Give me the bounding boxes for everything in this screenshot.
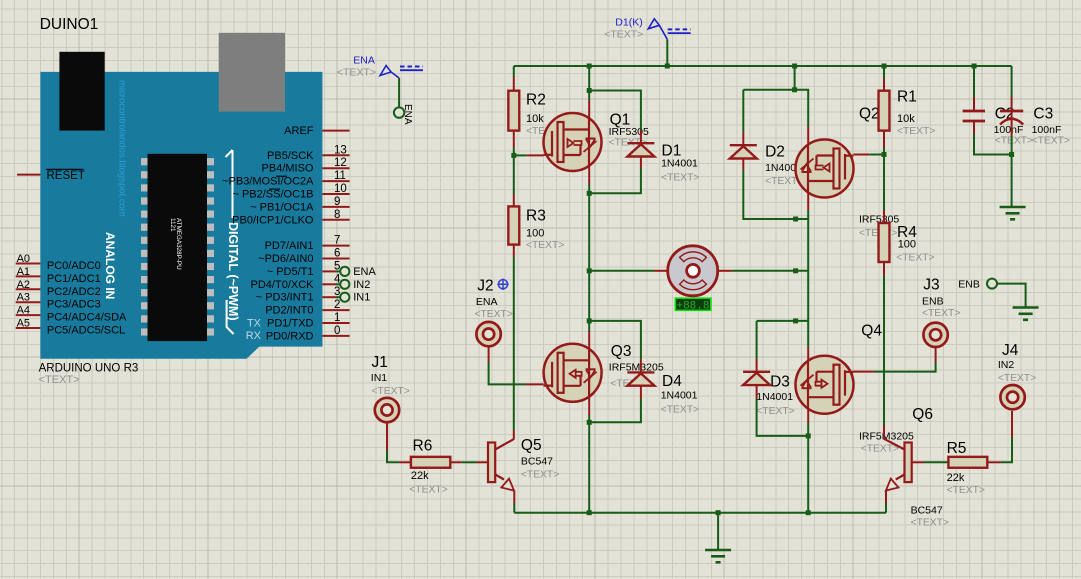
svg-text:Q2: Q2 [859,106,880,123]
svg-text:ENB: ENB [922,295,944,307]
svg-text:A1: A1 [17,266,30,278]
svg-text:<TEXT>: <TEXT> [896,253,934,264]
svg-text:IN1: IN1 [371,372,388,384]
svg-text:<TEXT>: <TEXT> [372,386,410,397]
svg-text:A2: A2 [17,279,30,291]
svg-text:ENA: ENA [476,296,498,308]
svg-text:C3: C3 [1033,106,1053,123]
svg-text:ENA: ENA [353,266,376,278]
svg-text:J2: J2 [477,278,493,295]
svg-text:3: 3 [334,286,340,298]
svg-text:6: 6 [334,248,340,260]
svg-text:~PB3/MOSI/OC2A: ~PB3/MOSI/OC2A [222,176,314,188]
svg-text:~ PD5/T1: ~ PD5/T1 [267,266,314,278]
svg-text:D3: D3 [770,374,790,391]
svg-text:<TEXT>: <TEXT> [998,373,1036,384]
svg-text:4: 4 [334,273,341,285]
svg-text:11: 11 [334,170,346,182]
svg-text:1N4001: 1N4001 [661,390,698,402]
svg-text:ANALOG IN: ANALOG IN [103,232,117,299]
svg-text:PD0/RXD: PD0/RXD [266,330,314,342]
svg-text:Q6: Q6 [912,406,933,423]
svg-text:BC547: BC547 [911,505,943,517]
svg-text:10k: 10k [526,113,544,125]
svg-text:9: 9 [334,196,340,208]
svg-text:12: 12 [334,157,347,169]
svg-text:PC2/ADC2: PC2/ADC2 [47,286,101,298]
svg-text:D2: D2 [765,144,785,161]
svg-text:1N4001: 1N4001 [756,391,793,403]
svg-text:5: 5 [334,260,340,272]
svg-text:DUINO1: DUINO1 [40,16,99,33]
svg-text:<TEXT>: <TEXT> [947,485,985,496]
svg-text:2: 2 [334,299,340,311]
svg-text:PB4/MISO: PB4/MISO [262,163,314,175]
svg-text:<TEXT>: <TEXT> [521,470,559,481]
svg-text:~PD6/AIN0: ~PD6/AIN0 [258,253,313,265]
svg-text:BC547: BC547 [521,456,553,468]
svg-text:<TEXT>: <TEXT> [661,173,699,184]
svg-text:TX: TX [247,317,262,329]
svg-text:<TEXT>: <TEXT> [604,28,643,40]
svg-text:R1: R1 [897,89,917,106]
svg-text:1N4001: 1N4001 [661,158,698,170]
svg-text:<TEXT>: <TEXT> [337,66,376,78]
svg-text:100: 100 [526,228,544,240]
svg-text:<TEXT>: <TEXT> [922,308,960,319]
svg-text:PD2/INT0: PD2/INT0 [265,305,313,317]
svg-text:ARDUINO UNO R3: ARDUINO UNO R3 [39,363,139,375]
svg-text:100: 100 [898,239,916,251]
svg-text:0: 0 [334,325,340,337]
svg-text:+88.8: +88.8 [676,301,709,313]
svg-text:A5: A5 [17,318,30,330]
svg-text:<TEXT>: <TEXT> [995,136,1033,147]
svg-text:D4: D4 [662,373,682,390]
svg-text:<TEXT>: <TEXT> [1032,136,1070,147]
svg-text:PD4/T0/XCK: PD4/T0/XCK [251,279,315,291]
svg-text:R3: R3 [526,208,546,225]
svg-text:<TEXT>: <TEXT> [475,309,513,320]
svg-text:<TEXT>: <TEXT> [661,405,699,416]
svg-text:J3: J3 [923,277,939,294]
svg-text:~ PB2/SS/OC1B: ~ PB2/SS/OC1B [232,189,313,201]
svg-text:ENA: ENA [402,104,413,125]
svg-text:A4: A4 [17,305,30,317]
svg-text:PC4/ADC4/SDA: PC4/ADC4/SDA [47,312,127,324]
svg-text:10: 10 [334,183,347,195]
svg-text:10k: 10k [897,113,915,125]
svg-text:<TEXT>: <TEXT> [911,518,949,529]
svg-text:<TEXT>: <TEXT> [409,485,447,496]
svg-text:D1(K): D1(K) [615,17,642,29]
svg-text:PC1/ADC1: PC1/ADC1 [47,273,101,285]
svg-text:PC5/ADC5/SCL: PC5/ADC5/SCL [47,325,125,337]
svg-text:R6: R6 [413,438,433,455]
svg-text:<TEXT>: <TEXT> [39,374,80,386]
svg-text:PB5/SCK: PB5/SCK [267,150,314,162]
svg-text:A0: A0 [17,253,30,265]
svg-text:RX: RX [246,330,262,342]
svg-text:microcontrolandos.blogspot.com: microcontrolandos.blogspot.com [117,80,128,217]
svg-text:<TEXT>: <TEXT> [526,240,564,251]
svg-text:IN1: IN1 [353,292,370,304]
svg-text:1121: 1121 [169,218,176,232]
svg-text:PD1/TXD: PD1/TXD [267,318,314,330]
svg-text:~ PB1/OC1A: ~ PB1/OC1A [250,201,314,213]
svg-text:R2: R2 [526,92,546,109]
svg-text:ENB: ENB [958,279,980,291]
svg-text:IRF5305: IRF5305 [609,126,649,138]
svg-text:Q3: Q3 [611,343,632,360]
svg-text:13: 13 [334,144,347,156]
svg-text:A3: A3 [17,292,30,304]
svg-text:IN2: IN2 [353,279,370,291]
svg-text:J1: J1 [372,354,388,371]
svg-text:PC3/ADC3: PC3/ADC3 [47,299,101,311]
svg-text:8: 8 [334,209,340,221]
svg-text:100nF: 100nF [1032,124,1062,136]
svg-text:RESET: RESET [47,170,85,182]
svg-text:~ PD3/INT1: ~ PD3/INT1 [256,292,314,304]
svg-text:PD7/AIN1: PD7/AIN1 [265,240,314,252]
svg-text:AREF: AREF [284,125,314,137]
svg-text:J4: J4 [1002,342,1019,359]
svg-text:PB0/ICP1/CLKO: PB0/ICP1/CLKO [232,214,314,226]
svg-text:DIGITAL (~PWM): DIGITAL (~PWM) [226,222,240,321]
svg-text:<TEXT>: <TEXT> [897,126,935,137]
svg-text:PC0/ADC0: PC0/ADC0 [47,260,101,272]
svg-text:R5: R5 [947,440,967,457]
svg-text:22k: 22k [411,470,429,482]
svg-text:7: 7 [334,235,340,247]
svg-text:IN2: IN2 [998,359,1015,371]
svg-text:1: 1 [334,312,340,324]
svg-text:ATMEGA328P-PU: ATMEGA328P-PU [175,218,182,270]
svg-text:Q5: Q5 [521,437,542,454]
svg-text:<TEXT>: <TEXT> [756,406,794,417]
svg-text:<TEXT>: <TEXT> [861,444,899,455]
svg-text:100nF: 100nF [994,124,1024,136]
svg-text:Q4: Q4 [861,323,882,340]
svg-text:ENA: ENA [353,54,375,66]
svg-text:22k: 22k [947,472,965,484]
